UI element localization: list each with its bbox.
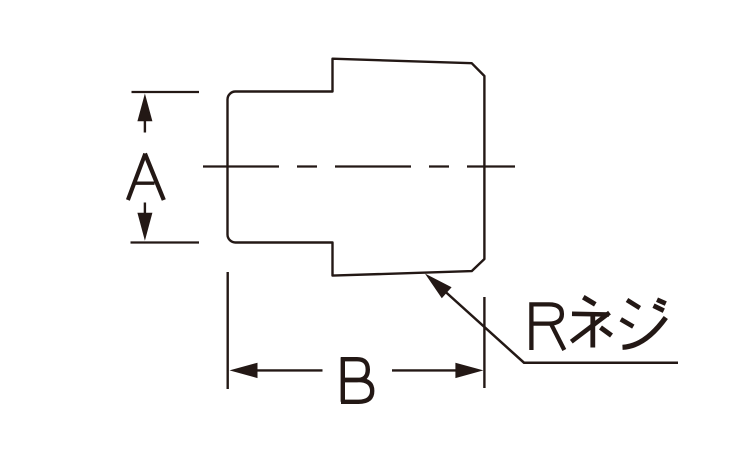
label A <box>128 154 164 200</box>
center line <box>203 165 515 167</box>
dimension A arrow down <box>137 203 152 241</box>
dimension B extension line right <box>483 297 485 388</box>
label katakana NE of neji <box>571 297 611 347</box>
leader arrow to thread <box>425 274 452 299</box>
leader line <box>444 291 678 363</box>
dimension B extension line left <box>226 272 228 389</box>
dimension A extension line top <box>132 91 200 93</box>
dimension A extension line bottom <box>131 241 200 243</box>
dimension B arrow right <box>392 363 483 378</box>
dimension B arrow left <box>230 363 323 378</box>
label B <box>341 357 372 402</box>
dimension A arrow up <box>137 94 152 133</box>
label R (of R thread) <box>531 304 564 350</box>
fitting body outline <box>228 59 485 276</box>
label katakana JI of neji <box>621 300 666 348</box>
